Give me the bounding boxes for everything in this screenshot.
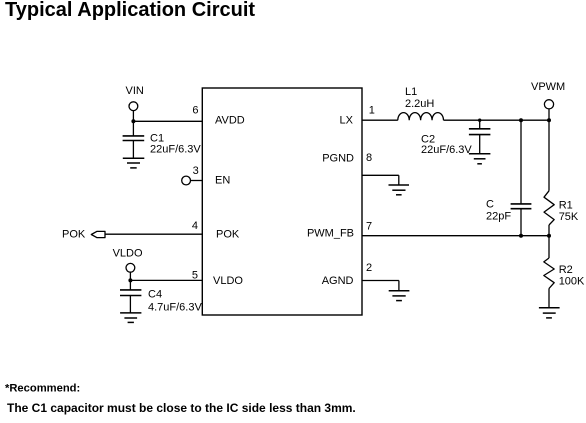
junction R1/PWM_FB — [547, 234, 551, 238]
svg-text:4.7uF/6.3V: 4.7uF/6.3V — [148, 301, 202, 313]
svg-text:L1: L1 — [405, 86, 417, 98]
capacitor C2 — [469, 129, 491, 135]
ground (R2) — [539, 308, 560, 318]
svg-text:R1: R1 — [559, 199, 573, 211]
svg-text:LX: LX — [340, 114, 354, 126]
wire C bottom — [520, 209, 522, 236]
svg-text:VLDO: VLDO — [113, 248, 143, 260]
wire EN pin3 — [191, 180, 203, 182]
svg-text:The C1 capacitor must be close: The C1 capacitor must be close to the IC… — [7, 401, 356, 415]
terminal POK tag — [91, 231, 105, 237]
capacitor C1 — [123, 136, 145, 141]
svg-text:22pF: 22pF — [486, 210, 511, 222]
svg-text:C: C — [486, 199, 494, 211]
wire C2 top — [479, 120, 481, 129]
wire L1 to VPWM — [444, 119, 550, 121]
svg-text:R2: R2 — [559, 264, 573, 276]
IC body U1 — [202, 88, 362, 315]
svg-text:75K: 75K — [559, 211, 579, 223]
wire C4 to ground — [129, 296, 131, 313]
wire C top — [520, 120, 522, 204]
junction VLDO/C4 — [128, 278, 132, 282]
svg-text:100K: 100K — [559, 276, 585, 288]
wire AVDD pin6 — [133, 120, 202, 122]
wire R2 to ground — [548, 289, 550, 308]
wire AGND vertical — [398, 281, 400, 291]
capacitor C4 — [120, 290, 141, 296]
svg-text:2: 2 — [366, 262, 372, 274]
svg-text:8: 8 — [366, 152, 372, 164]
inductor L1 — [398, 113, 444, 121]
wire VPWM to R1 — [548, 120, 550, 191]
svg-text:*Recommend:: *Recommend: — [5, 382, 80, 394]
svg-text:VLDO: VLDO — [213, 275, 243, 287]
svg-text:POK: POK — [62, 229, 86, 241]
ground (PGND) — [389, 185, 410, 195]
svg-text:22uF/6.3V: 22uF/6.3V — [150, 144, 201, 156]
ground (C1) — [123, 158, 145, 168]
resistor R2 — [544, 258, 554, 289]
svg-text:AVDD: AVDD — [215, 114, 245, 126]
ground (AGND) — [389, 291, 410, 301]
svg-text:POK: POK — [216, 229, 240, 241]
wire VPWM vertical — [548, 109, 550, 120]
svg-text:4: 4 — [192, 220, 198, 232]
wire AGND pin2 — [362, 280, 399, 282]
svg-text:C4: C4 — [148, 289, 162, 301]
wire C2 to ground — [479, 135, 481, 154]
svg-text:AGND: AGND — [322, 275, 354, 287]
junction VPWM/LX — [547, 118, 551, 122]
svg-text:EN: EN — [215, 175, 230, 187]
wire C1 top — [132, 121, 134, 136]
svg-text:2.2uH: 2.2uH — [405, 98, 434, 110]
junction C2 tap — [478, 119, 481, 122]
ground (C4) — [120, 313, 141, 323]
wire PWM_FB pin7 — [362, 235, 549, 237]
wire C4 top — [129, 280, 131, 290]
wire POK pin4 — [105, 233, 202, 235]
wire VLDO vertical — [129, 272, 131, 280]
wire VIN vertical — [132, 111, 134, 122]
terminal VPWM — [544, 100, 553, 109]
svg-text:Typical Application Circuit: Typical Application Circuit — [5, 0, 255, 21]
svg-text:1: 1 — [369, 105, 375, 117]
wire PGND pin8 — [362, 174, 399, 176]
svg-text:VIN: VIN — [126, 85, 144, 97]
wire VLDO pin5 — [130, 279, 202, 281]
svg-text:3: 3 — [193, 165, 199, 177]
wire R1 bottom — [548, 225, 550, 236]
resistor R1 — [544, 191, 554, 225]
svg-text:VPWM: VPWM — [531, 81, 565, 93]
svg-text:6: 6 — [192, 105, 198, 117]
terminal VIN — [129, 102, 138, 111]
svg-text:PGND: PGND — [322, 153, 354, 165]
wire PGND vertical — [398, 175, 400, 185]
svg-text:22uF/6.3V: 22uF/6.3V — [421, 144, 472, 156]
junction VIN/C1 — [131, 119, 135, 123]
terminal EN (open circle) — [182, 176, 191, 185]
junction C tap on LX — [519, 118, 523, 122]
terminal VLDO — [126, 263, 135, 272]
wire C1 to ground — [132, 141, 134, 159]
junction C/PWM_FB — [519, 234, 523, 238]
ground (C2) — [469, 154, 491, 164]
capacitor C — [511, 204, 532, 209]
wire LX pin1 — [362, 119, 398, 121]
wire R2 top — [548, 236, 550, 258]
svg-text:7: 7 — [366, 221, 372, 233]
svg-text:PWM_FB: PWM_FB — [307, 227, 354, 239]
